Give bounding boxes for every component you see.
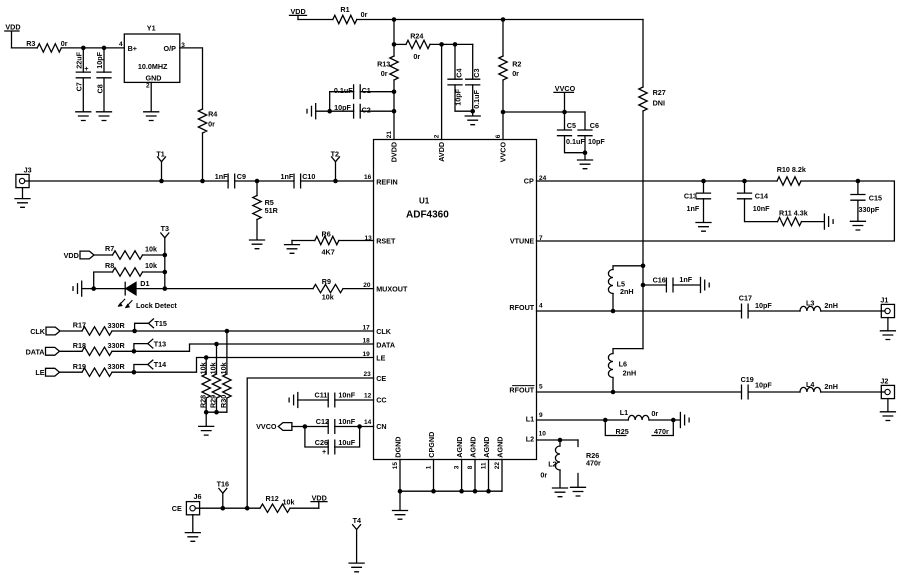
- svg-text:R17: R17: [73, 321, 86, 330]
- wire L2 pin 10: [537, 439, 579, 441]
- resistor R29 10k: [209, 344, 221, 412]
- node L2 tap junction: [558, 438, 563, 443]
- svg-text:T1: T1: [156, 149, 164, 158]
- wire R17 to pin 17: [112, 330, 374, 332]
- svg-text:J6: J6: [194, 492, 202, 501]
- wire L1 pin 9: [537, 419, 629, 421]
- node R5-REFIN junction: [255, 179, 260, 184]
- svg-text:C9: C9: [237, 172, 246, 181]
- capacitor C16 1nF: [643, 275, 700, 292]
- resistor R10 8.2k: [777, 165, 806, 185]
- node T3-R7 junction: [163, 253, 168, 258]
- svg-text:C5: C5: [567, 121, 576, 130]
- svg-text:4: 4: [119, 41, 123, 48]
- svg-text:5: 5: [539, 384, 543, 391]
- node T3-MUXOUT junction: [163, 286, 168, 291]
- svg-text:L4: L4: [806, 380, 814, 389]
- node C4 tap junction: [453, 42, 458, 47]
- resistor R24 0r: [394, 32, 430, 61]
- svg-text:C6: C6: [590, 121, 599, 130]
- svg-text:CPGND: CPGND: [427, 432, 436, 458]
- port flag CLK: [30, 327, 60, 336]
- wire gnd to R6: [292, 240, 315, 242]
- svg-text:330R: 330R: [108, 341, 126, 350]
- wire flag to R7: [94, 254, 113, 256]
- svg-text:23: 23: [364, 371, 372, 378]
- svg-text:AGND: AGND: [468, 437, 477, 458]
- resistor R18 330R: [73, 341, 126, 356]
- wire R19 to pin 19 (jog): [112, 358, 374, 373]
- node C15-CP junction: [856, 179, 861, 184]
- node T1 junction (REFIN): [159, 179, 164, 184]
- svg-text:U1: U1: [419, 196, 430, 205]
- wire L1 to ground: [649, 419, 680, 421]
- wire C9 to C10: [235, 180, 294, 182]
- node R24-DVDD junction: [392, 42, 397, 47]
- resistor R28 10k: [198, 358, 210, 413]
- wire R28-R30 common: [206, 412, 227, 426]
- svg-text:4K7: 4K7: [322, 247, 335, 256]
- svg-text:R19: R19: [73, 362, 86, 371]
- node C3-C4 ground junction: [470, 109, 475, 114]
- ground (C8): [97, 112, 112, 121]
- node VDD-C7 junction: [81, 46, 86, 51]
- port flag VDD (R7): [64, 251, 94, 260]
- wire VDD to R1: [298, 19, 333, 21]
- wire VDD rail: [357, 19, 643, 21]
- svg-text:12: 12: [364, 392, 372, 399]
- svg-text:J3: J3: [24, 166, 32, 175]
- capacitor C6 10pF: [578, 112, 605, 153]
- node T16 junction (CE): [221, 506, 226, 511]
- svg-text:RFOUT: RFOUT: [509, 303, 534, 312]
- svg-text:470r: 470r: [654, 427, 669, 436]
- resistor R7 10k: [105, 244, 157, 259]
- svg-text:REFIN: REFIN: [376, 178, 398, 187]
- testpoint T16: [217, 480, 229, 509]
- svg-text:0r: 0r: [361, 10, 368, 19]
- capacitor C26 10uF: [305, 427, 360, 456]
- wire R12 to VDD: [290, 507, 319, 509]
- node C2-DVDD junction: [392, 109, 397, 114]
- wire R6 to pin 13: [339, 240, 374, 242]
- node C13-CP junction: [701, 179, 706, 184]
- svg-text:R4: R4: [208, 109, 217, 118]
- ground (T4): [349, 563, 364, 572]
- resistor R5 51R: [253, 181, 279, 240]
- wire AGND pin 11: [488, 460, 490, 492]
- svg-text:R11 4.3k: R11 4.3k: [779, 208, 808, 217]
- svg-text:T3: T3: [161, 224, 169, 233]
- resistor R25 470r (parallel, hidden body): [605, 420, 673, 436]
- svg-text:C7: C7: [75, 82, 84, 91]
- svg-text:DNI: DNI: [653, 98, 665, 107]
- svg-text:10nF: 10nF: [338, 390, 355, 399]
- node R29-DATA junction: [214, 342, 219, 347]
- wire CE pin 23 down to J6 line: [247, 378, 373, 508]
- wire RFOUT pin 4: [537, 310, 742, 312]
- svg-text:C10: C10: [302, 172, 315, 181]
- capacitor C19 10pF: [741, 375, 773, 399]
- svg-text:20: 20: [363, 282, 371, 289]
- op-amp U1 ADF4360 (IC body): [374, 140, 537, 460]
- node T14 junction (LE): [132, 370, 137, 375]
- power flag VVCO: [554, 84, 576, 112]
- wire R24 to C3 corner: [430, 43, 473, 45]
- svg-text:10k: 10k: [283, 497, 295, 506]
- svg-text:R30: R30: [219, 395, 228, 408]
- wire L3 to J1: [821, 310, 882, 312]
- svg-text:ADF4360: ADF4360: [406, 210, 449, 221]
- svg-text:10: 10: [539, 431, 547, 438]
- testpoint T2: [331, 149, 340, 181]
- testpoint T14: [134, 360, 166, 372]
- resistor R30 10k: [219, 331, 231, 412]
- node bus pin8 junction: [473, 489, 478, 494]
- svg-text:10pF: 10pF: [755, 381, 772, 390]
- svg-text:0.1uF: 0.1uF: [566, 137, 585, 146]
- node C5-C6 ground junction: [583, 150, 588, 155]
- svg-text:10uF: 10uF: [338, 438, 355, 447]
- svg-text:CLK: CLK: [376, 327, 392, 336]
- resistor R3 0r: [26, 39, 68, 52]
- node DVDD rail junction: [392, 17, 397, 22]
- svg-text:0r: 0r: [512, 69, 519, 78]
- svg-text:0r: 0r: [381, 69, 388, 78]
- wire R18 to pin 18 (jog): [112, 344, 374, 351]
- wire RFOUT(bar) pin 5: [537, 391, 742, 393]
- svg-text:R27: R27: [653, 88, 666, 97]
- svg-text:10pF: 10pF: [453, 88, 462, 105]
- svg-text:1nF: 1nF: [687, 204, 700, 213]
- svg-text:CC: CC: [376, 396, 386, 405]
- ground (J1): [880, 331, 895, 340]
- ground (C3/C4): [465, 111, 480, 125]
- wire J1 ground stem: [887, 318, 889, 331]
- wire flag to R18: [60, 350, 83, 352]
- wire DGND pin 15: [399, 460, 401, 492]
- svg-text:AGND: AGND: [455, 437, 464, 458]
- port flag VVCO (CN): [256, 422, 292, 431]
- resistor R1 0r: [333, 5, 368, 24]
- wire Y1 GND pin: [150, 82, 152, 111]
- inductor L5 2nH: [608, 266, 643, 311]
- svg-text:VDD: VDD: [5, 23, 20, 32]
- node R4-REFIN junction: [200, 179, 205, 184]
- ground (Y1): [144, 112, 159, 121]
- wire J3 ground stem: [22, 188, 24, 199]
- wire J6 to R12: [200, 507, 260, 509]
- svg-text:10nF: 10nF: [753, 204, 770, 213]
- ground (C15): [850, 221, 865, 230]
- node bus pin11 junction: [486, 489, 491, 494]
- resistor R26 470r (hidden body): [578, 440, 601, 487]
- wire R13 to pin 21: [393, 80, 395, 140]
- svg-text:2: 2: [434, 134, 441, 138]
- wire AGND pin 3: [461, 460, 463, 492]
- capacitor C3 0.1uF: [466, 44, 481, 111]
- svg-text:0r: 0r: [208, 119, 215, 128]
- svg-text:R7: R7: [105, 244, 114, 253]
- node L1-R25 right junction: [671, 418, 676, 423]
- node T13 junction (DATA): [132, 349, 137, 354]
- node R28-LE junction: [204, 355, 209, 360]
- capacitor C15 330pF: [851, 181, 882, 221]
- svg-text:Y1: Y1: [147, 24, 156, 33]
- svg-text:C2: C2: [362, 106, 371, 115]
- svg-text:1nF: 1nF: [281, 172, 294, 181]
- svg-text:0r: 0r: [413, 52, 420, 61]
- svg-text:CN: CN: [376, 422, 386, 431]
- svg-text:VTUNE: VTUNE: [510, 237, 535, 246]
- svg-text:L1: L1: [526, 414, 534, 423]
- connector J3: [16, 166, 32, 188]
- svg-text:CE: CE: [172, 504, 182, 513]
- svg-text:15: 15: [392, 462, 399, 470]
- svg-text:1nF: 1nF: [679, 275, 692, 284]
- port flag DATA: [26, 347, 60, 356]
- svg-text:6: 6: [495, 134, 502, 138]
- capacitor C7 22uF: [75, 48, 91, 112]
- ground (C1/C2 left): [307, 104, 316, 119]
- inductor L6 2nH: [608, 349, 643, 392]
- wire R7 to T3 line: [143, 254, 165, 256]
- svg-text:18: 18: [363, 337, 371, 344]
- node R24-AVDD junction: [439, 42, 444, 47]
- svg-text:CLK: CLK: [30, 327, 46, 336]
- svg-text:R12: R12: [266, 494, 279, 503]
- svg-text:RSET: RSET: [376, 237, 396, 246]
- svg-text:CP: CP: [524, 177, 534, 186]
- svg-text:2nH: 2nH: [623, 368, 637, 377]
- wire CPGND pin 1: [433, 460, 435, 492]
- svg-text:10.0MHZ: 10.0MHZ: [138, 62, 168, 71]
- capacitor C1 0.1uF: [330, 85, 394, 99]
- capacitor C10 1nF: [281, 172, 316, 188]
- svg-text:2nH: 2nH: [620, 287, 634, 296]
- ground (L1, sideways): [680, 413, 689, 428]
- testpoint T15: [135, 319, 167, 331]
- svg-text:GND: GND: [146, 74, 162, 83]
- svg-text:AGND: AGND: [482, 437, 491, 458]
- svg-text:14: 14: [364, 419, 372, 426]
- svg-text:C14: C14: [755, 191, 768, 200]
- inductor L3 2nH: [800, 299, 838, 311]
- svg-text:330R: 330R: [108, 362, 126, 371]
- svg-text:Lock Detect: Lock Detect: [136, 301, 177, 310]
- capacitor C11 10nF: [315, 390, 356, 406]
- wire C19 to L4: [748, 391, 800, 393]
- node R2-VVCO junction: [501, 110, 506, 115]
- wire J6 ground stem: [192, 515, 194, 533]
- node T15 junction (CLK): [132, 329, 137, 334]
- svg-text:+: +: [84, 64, 88, 73]
- svg-text:16: 16: [364, 174, 372, 181]
- node bus pin15 junction: [398, 489, 403, 494]
- wire D1 to R9 (MUXOUT): [136, 288, 313, 290]
- svg-text:C19: C19: [741, 375, 754, 384]
- svg-text:C16: C16: [653, 276, 666, 285]
- svg-text:10pF: 10pF: [334, 103, 351, 112]
- svg-text:R3: R3: [26, 39, 35, 48]
- connector J6: [186, 492, 201, 515]
- wire REFIN: J3 to C9: [29, 180, 228, 182]
- wire flag to C12: [292, 426, 328, 428]
- node VVCO-C26 junction: [303, 424, 308, 429]
- svg-text:C4: C4: [455, 68, 464, 77]
- node VDD-C8 junction: [102, 46, 107, 51]
- svg-text:2nH: 2nH: [824, 301, 838, 310]
- svg-text:R18: R18: [73, 341, 86, 350]
- svg-text:R13: R13: [377, 60, 390, 69]
- svg-text:22: 22: [494, 462, 501, 470]
- testpoint T13: [134, 339, 166, 351]
- svg-text:LE: LE: [376, 353, 385, 362]
- ground (C7): [76, 112, 91, 121]
- wire R4 to REFIN line: [202, 133, 204, 181]
- node L5 tap junction: [641, 264, 646, 269]
- inductor L4 2nH: [800, 380, 838, 392]
- svg-text:L3: L3: [806, 299, 814, 308]
- svg-text:R25: R25: [616, 427, 629, 436]
- testpoint T3: [161, 224, 169, 288]
- svg-text:L2: L2: [526, 435, 534, 444]
- svg-text:21: 21: [386, 131, 393, 139]
- node L1-R25 left junction: [603, 418, 608, 423]
- inductor L2 0r: [540, 440, 560, 488]
- wire R8 left corner: [94, 272, 113, 289]
- svg-text:AVDD: AVDD: [437, 142, 446, 162]
- resistor R8 10k: [105, 261, 157, 276]
- svg-text:DATA: DATA: [26, 347, 45, 356]
- resistor R11 4.3k: [778, 208, 808, 225]
- svg-text:10pF: 10pF: [588, 137, 605, 146]
- svg-text:51R: 51R: [265, 206, 279, 215]
- svg-text:C12: C12: [316, 417, 329, 426]
- wire R9 to pin 20: [343, 288, 374, 290]
- ground (J3): [15, 199, 30, 208]
- wire VVCO rail: [503, 111, 585, 113]
- svg-text:R8: R8: [105, 261, 114, 270]
- testpoint T1: [156, 149, 165, 181]
- testpoint T4: [353, 516, 361, 563]
- svg-text:T2: T2: [331, 149, 339, 158]
- svg-text:1: 1: [426, 465, 433, 469]
- wire DVDD drop: [393, 20, 395, 57]
- svg-text:O/P: O/P: [164, 44, 177, 53]
- svg-text:J2: J2: [880, 377, 888, 386]
- resistor R6 4K7: [315, 229, 339, 256]
- capacitor C4 10pF: [448, 44, 473, 111]
- resistor R13 0r: [377, 56, 398, 80]
- svg-text:0r: 0r: [651, 409, 658, 418]
- svg-text:330R: 330R: [108, 321, 126, 330]
- svg-text:10nF: 10nF: [338, 417, 355, 426]
- svg-text:C17: C17: [739, 293, 752, 302]
- ground (R6 left): [285, 241, 300, 254]
- ground (L2): [553, 488, 568, 497]
- svg-text:10k: 10k: [145, 261, 157, 270]
- svg-text:8: 8: [467, 465, 474, 469]
- capacitor C8 10pF: [95, 48, 111, 112]
- svg-text:10k: 10k: [145, 244, 157, 253]
- capacitor C12 10nF: [316, 417, 356, 433]
- svg-text:9: 9: [539, 412, 543, 419]
- svg-text:+: +: [322, 447, 326, 456]
- capacitor C2 10pF: [316, 92, 394, 118]
- svg-text:19: 19: [363, 351, 371, 358]
- svg-text:10k: 10k: [198, 362, 207, 374]
- svg-text:R24: R24: [410, 32, 423, 41]
- ground (R11, sideways): [824, 214, 833, 229]
- ground (C13): [696, 223, 711, 232]
- capacitor C14 10nF: [738, 181, 778, 222]
- wire L4 to J2: [821, 391, 882, 393]
- svg-text:0.1uF: 0.1uF: [472, 89, 481, 108]
- capacitor C5 0.1uF: [558, 112, 586, 153]
- wire AGND pin 8: [474, 460, 476, 492]
- svg-text:VDD: VDD: [64, 251, 79, 260]
- node bus pin3 junction: [459, 489, 464, 494]
- resistor R17 330R: [73, 321, 126, 336]
- ground (R26): [571, 487, 586, 496]
- svg-text:330pF: 330pF: [859, 205, 880, 214]
- ground (D1 left): [73, 281, 94, 296]
- node R30-CLK junction: [225, 329, 230, 334]
- resistor R2 0r: [499, 20, 522, 140]
- node C14-CP junction: [742, 179, 747, 184]
- node L6-RFOUTB junction: [611, 390, 616, 395]
- ground (J2): [880, 412, 895, 421]
- ground (bus): [393, 511, 408, 520]
- ground (J6): [185, 533, 200, 542]
- svg-text:T14: T14: [154, 360, 166, 369]
- node C16 tap junction: [641, 283, 646, 288]
- capacitor C17 10pF: [739, 293, 773, 317]
- svg-text:C15: C15: [869, 193, 882, 202]
- svg-text:10k: 10k: [219, 362, 228, 374]
- ground (C11 left): [289, 393, 328, 408]
- svg-text:L1: L1: [620, 408, 628, 417]
- resistor R4 0r: [198, 109, 217, 133]
- oscillator Y1 10.0MHZ: [124, 24, 180, 83]
- svg-text:R29: R29: [209, 395, 218, 408]
- svg-text:VVCO: VVCO: [256, 422, 277, 431]
- svg-text:C3: C3: [472, 68, 481, 77]
- svg-text:470r: 470r: [586, 459, 601, 468]
- svg-text:DGND: DGND: [393, 437, 402, 458]
- svg-text:MUXOUT: MUXOUT: [376, 285, 408, 294]
- svg-text:R2: R2: [512, 60, 521, 69]
- wire AVDD pin 2: [441, 44, 443, 139]
- svg-text:T16: T16: [217, 480, 229, 489]
- svg-text:1nF: 1nF: [215, 172, 228, 181]
- resistor R9 10k: [313, 277, 343, 301]
- svg-text:13: 13: [365, 235, 373, 242]
- svg-text:4: 4: [539, 303, 543, 310]
- svg-text:C8: C8: [96, 84, 105, 93]
- svg-text:L6: L6: [619, 360, 627, 369]
- node C1-C2 left junction: [327, 109, 332, 114]
- svg-text:0r: 0r: [540, 471, 547, 480]
- svg-text:10pF: 10pF: [95, 51, 104, 68]
- svg-text:R28: R28: [198, 395, 207, 408]
- svg-text:22uF: 22uF: [75, 51, 84, 68]
- svg-text:0r: 0r: [61, 39, 68, 48]
- svg-text:C1: C1: [362, 86, 371, 95]
- power flag VDD (top-left): [5, 23, 21, 48]
- capacitor C9 1nF: [215, 172, 246, 188]
